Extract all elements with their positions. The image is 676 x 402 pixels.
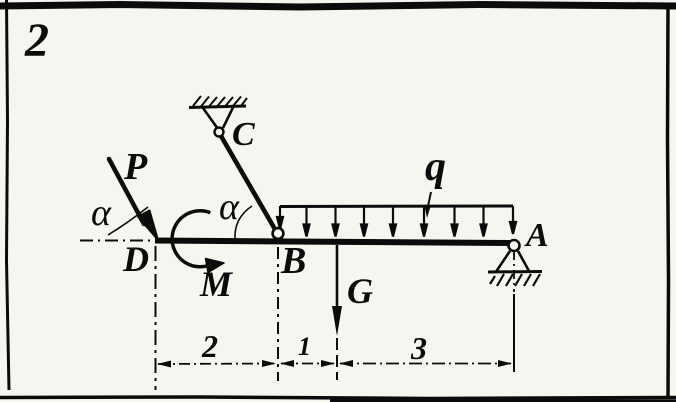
- svg-text:3: 3: [410, 330, 427, 366]
- extension line at G: [336, 338, 338, 380]
- svg-text:C: C: [232, 116, 255, 153]
- svg-text:2: 2: [201, 328, 218, 364]
- svg-text:α: α: [91, 192, 112, 234]
- extension line at A: [513, 294, 515, 372]
- dimension line D-B: [157, 360, 276, 368]
- distributed load arrows: [277, 206, 516, 237]
- svg-text:M: M: [199, 264, 234, 304]
- support A triangle: [497, 251, 530, 271]
- svg-text:q: q: [425, 144, 446, 190]
- frame left border: [7, 0, 10, 390]
- dimension line G-A: [339, 360, 512, 367]
- angle arc at D: [108, 207, 148, 235]
- frame top border: [0, 5, 676, 8]
- support A centerline: [513, 251, 515, 292]
- pin A: [509, 240, 520, 251]
- dimension line B-G: [280, 360, 335, 367]
- support C hatching and ceiling: [189, 96, 247, 108]
- distributed load q top line: [280, 205, 513, 209]
- rod BC: [221, 136, 276, 231]
- svg-text:D: D: [122, 239, 149, 279]
- moment M arc: [172, 211, 224, 273]
- pin C: [215, 128, 224, 137]
- angle arc at B: [235, 206, 252, 239]
- svg-text:B: B: [280, 240, 306, 282]
- svg-text:2: 2: [24, 14, 49, 67]
- support A ground line: [488, 270, 542, 274]
- svg-text:1: 1: [298, 332, 311, 361]
- centerline left of D (dash-dot): [80, 240, 154, 242]
- extension line at D: [155, 246, 157, 390]
- q leader arrow: [425, 192, 432, 218]
- beam DA: [155, 241, 512, 244]
- extension line at B: [277, 247, 279, 381]
- svg-text:A: A: [524, 217, 549, 254]
- support A hatching: [490, 274, 540, 286]
- pin B: [273, 228, 284, 239]
- frame bottom border: [0, 397, 676, 399]
- force P: [109, 159, 158, 240]
- frame right border: [668, 4, 669, 397]
- force G: [332, 245, 342, 336]
- svg-text:α: α: [219, 186, 240, 228]
- support C triangle: [203, 108, 233, 130]
- frame bottom edge marks: [330, 400, 676, 402]
- svg-text:G: G: [347, 271, 373, 311]
- svg-text:P: P: [123, 146, 148, 188]
